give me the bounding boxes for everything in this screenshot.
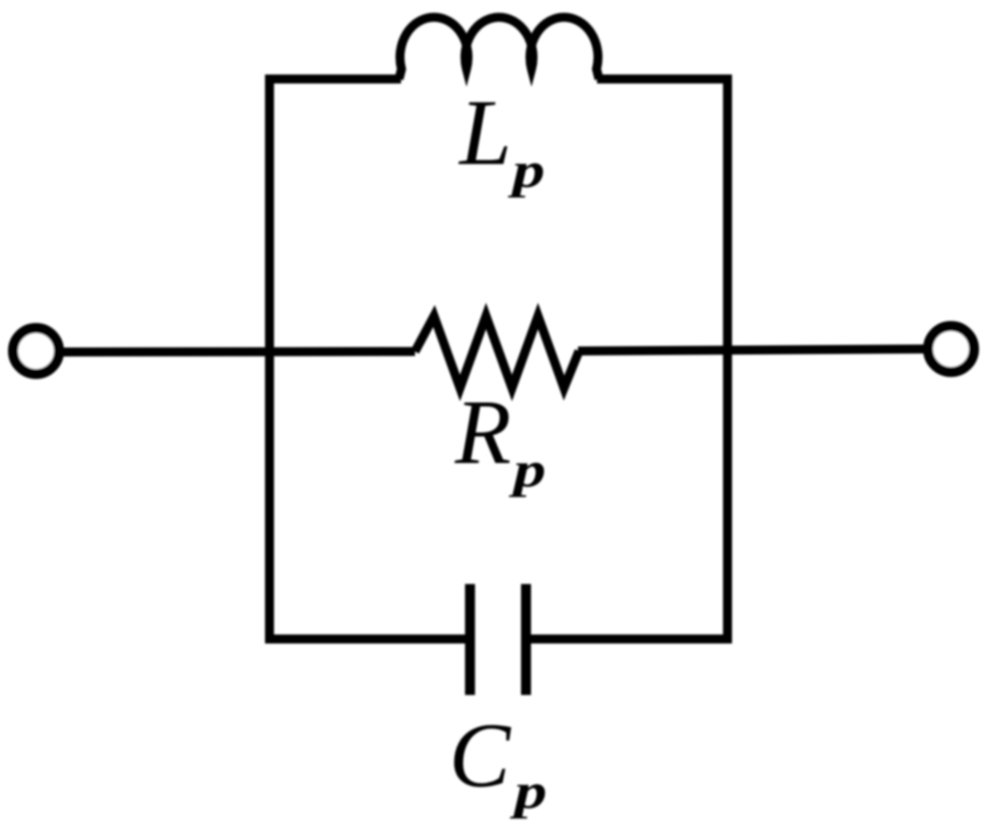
- label C_p: [449, 704, 547, 819]
- resistor R_p: [415, 316, 579, 388]
- capacitor C_p: [470, 584, 526, 695]
- svg-text:p: p: [508, 441, 546, 497]
- inductor L_p: [399, 17, 599, 79]
- svg-text:C: C: [449, 704, 512, 806]
- label L_p: [458, 81, 545, 198]
- label R_p: [454, 381, 546, 498]
- wire middle-left (left terminal to resistor): [63, 347, 415, 357]
- wire middle-right (resistor to right terminal): [578, 349, 924, 351]
- svg-text:p: p: [507, 142, 545, 198]
- node terminal right: [928, 326, 974, 372]
- svg-text:L: L: [458, 81, 512, 185]
- node terminal left: [13, 328, 59, 374]
- svg-text:R: R: [454, 381, 511, 483]
- wire top-left L (top wire left + left side + bottom wire left): [270, 79, 471, 639]
- svg-text:p: p: [509, 763, 547, 819]
- wire top-right L (top wire right + right side + bottom wire right): [526, 79, 728, 639]
